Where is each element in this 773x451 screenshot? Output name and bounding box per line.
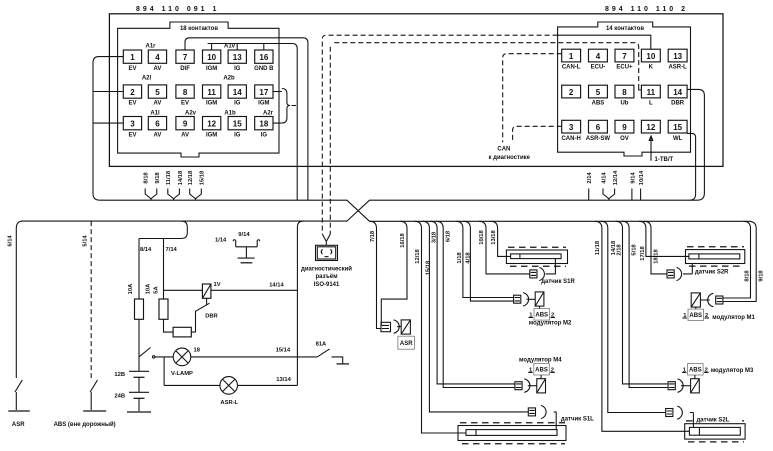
switch DBR <box>196 303 210 332</box>
svg-text:16: 16 <box>259 53 268 62</box>
svg-text:18: 18 <box>259 120 268 129</box>
wire lead 15/18 <box>196 170 206 200</box>
svg-text:EV: EV <box>128 66 136 72</box>
svg-text:3: 3 <box>569 123 574 132</box>
group label A1v <box>224 44 236 50</box>
pin 9/14 (OV) <box>615 120 634 142</box>
switch ABS <box>90 380 97 410</box>
wire L-line dashed from diagnostic connector <box>334 43 638 86</box>
label 9/18 <box>759 270 765 282</box>
wire 3/18 to modulator M4 <box>430 221 515 384</box>
wire lead 9/18 <box>151 172 161 201</box>
pin 7/14 (ECU+) <box>615 49 634 70</box>
label 12В <box>114 372 125 378</box>
svg-text:8: 8 <box>622 88 627 97</box>
svg-text:модулятор M4: модулятор M4 <box>519 358 562 364</box>
wire sensor S2R to plug <box>683 264 692 274</box>
svg-text:A1v: A1v <box>224 44 236 50</box>
group label A2b <box>223 76 235 82</box>
label датчик S1L <box>561 417 594 423</box>
group label A1l <box>150 111 160 117</box>
label 15/14 <box>276 348 291 354</box>
svg-text:ABS (вне дорожный): ABS (вне дорожный) <box>54 421 116 428</box>
wire fork into diagnostic connector <box>322 234 330 245</box>
svg-text:15/18: 15/18 <box>425 260 431 275</box>
connector X2 label: 14 контактов <box>606 26 644 32</box>
svg-text:A1l: A1l <box>150 111 160 117</box>
svg-text:9/14: 9/14 <box>238 232 250 238</box>
svg-text:81A: 81A <box>316 342 327 348</box>
fuse 5A relay feed <box>159 299 168 319</box>
svg-text:IG: IG <box>234 66 241 72</box>
pin 1/18 (EV) <box>123 50 141 72</box>
group label A2v <box>185 111 197 117</box>
svg-text:ABS: ABS <box>689 313 702 319</box>
svg-text:ASR-L: ASR-L <box>668 65 687 71</box>
wire lead 11/18 <box>166 170 173 200</box>
wire 6/18 to modulator M4 <box>436 221 515 387</box>
svg-text:5/14: 5/14 <box>83 235 89 247</box>
svg-text:ABS: ABS <box>535 313 548 319</box>
wire X1 pins 10,13,16 top arc <box>208 44 298 201</box>
plug S1R <box>530 267 545 280</box>
svg-text:8/18: 8/18 <box>745 270 751 282</box>
plug S2L <box>666 406 683 419</box>
svg-text:10A: 10A <box>128 283 134 294</box>
switch 81A and ground <box>317 349 343 364</box>
label модулятор M1 <box>712 315 755 321</box>
wire 6/14 to ASR switch <box>16 221 23 378</box>
ABS box M4 <box>528 364 555 376</box>
svg-text:датчик S1R: датчик S1R <box>541 279 575 285</box>
pin 11/14 (L) <box>641 85 660 107</box>
lamp V-LAMP <box>173 348 191 366</box>
svg-text:4/18: 4/18 <box>466 252 472 264</box>
svg-text:3/18: 3/18 <box>432 231 438 243</box>
pin 15/14 (WL) <box>668 120 687 142</box>
wire 8/18 to modulator M1 <box>723 221 751 298</box>
svg-text:12/14: 12/14 <box>613 170 619 185</box>
svg-text:13: 13 <box>673 52 682 61</box>
pin 2/14 (nc) <box>562 85 581 98</box>
wire 15/18 to sensor S1L plug <box>422 221 528 412</box>
svg-text:12/18: 12/18 <box>415 248 421 263</box>
svg-text:10/18: 10/18 <box>479 229 485 244</box>
wire 10/18 to sensor S1R plug <box>479 221 530 274</box>
svg-text:A2b: A2b <box>223 76 235 82</box>
svg-text:894 110 091 1: 894 110 091 1 <box>136 6 219 13</box>
svg-text:11/18: 11/18 <box>166 170 172 185</box>
svg-text:GND B: GND B <box>254 66 274 72</box>
svg-text:5/18: 5/18 <box>632 244 638 256</box>
svg-text:8/14: 8/14 <box>140 247 152 253</box>
valve ASR assembly <box>381 320 410 334</box>
label датчик S2R <box>695 270 729 276</box>
svg-text:IG: IG <box>234 101 241 107</box>
svg-text:5A: 5A <box>154 285 160 293</box>
connector X1 label: 18 контактов <box>180 26 218 32</box>
svg-text:1/14: 1/14 <box>215 238 227 244</box>
label 6/14 <box>8 235 14 247</box>
svg-text:A1r: A1r <box>145 44 156 50</box>
wire 18/18 to sensor S2R plug <box>644 221 667 274</box>
pin 13/18 (IG) <box>228 50 246 72</box>
ABS box M2 <box>529 309 556 321</box>
svg-text:датчик S2R: датчик S2R <box>695 270 729 276</box>
svg-text:6/14: 6/14 <box>8 235 14 247</box>
svg-text:14 контактов: 14 контактов <box>606 26 644 32</box>
pin 10/18 (IGM) <box>203 50 221 72</box>
svg-text:A1b: A1b <box>224 111 236 117</box>
connector X2 body (14-pin) <box>558 22 691 156</box>
svg-text:13/18: 13/18 <box>491 229 497 244</box>
svg-text:V-LAMP: V-LAMP <box>171 371 193 377</box>
pin 5/18 (AV) <box>148 85 166 107</box>
wire 7/14 relay feed down to resistor <box>164 319 196 332</box>
wire 5/18 to modulator M3 <box>622 221 668 387</box>
label 18 <box>194 348 201 354</box>
label diagnostic connector <box>301 265 352 288</box>
fuse 10A battery feed <box>135 299 144 319</box>
label 2/18 <box>617 244 623 256</box>
svg-text:14/14: 14/14 <box>269 283 284 289</box>
wire sensor S1R to plug <box>546 259 556 274</box>
svg-text:11: 11 <box>207 88 216 97</box>
wire 14/18 to sensor S2L plug <box>601 221 666 412</box>
svg-text:4: 4 <box>155 53 160 62</box>
wire lead 4/14 <box>601 172 609 201</box>
ground bar <box>238 258 255 263</box>
modulator M3 <box>668 375 699 393</box>
svg-text:7: 7 <box>183 53 188 62</box>
sensor S2L toothed ring <box>685 421 745 442</box>
label 10A <box>128 283 134 294</box>
pin 14/14 (DBR) <box>668 85 687 107</box>
svg-text:15: 15 <box>233 120 242 129</box>
wire X2 pin15 WL to harness <box>687 133 696 200</box>
label 14/14 <box>269 283 284 289</box>
svg-text:к диагностике: к диагностике <box>489 155 531 161</box>
svg-text:3: 3 <box>130 120 135 129</box>
sensor S1L toothed ring <box>458 423 566 444</box>
label 8/18 <box>745 270 751 282</box>
pin 13/14 (ASR-L) <box>668 49 687 70</box>
svg-text:24В: 24В <box>114 394 125 400</box>
svg-text:IGM: IGM <box>206 132 217 138</box>
wire 15/14 lamp line <box>155 356 317 358</box>
svg-text:5: 5 <box>596 88 601 97</box>
group label A1r <box>145 44 156 50</box>
svg-text:ECU+: ECU+ <box>616 65 633 71</box>
pin 3/18 (EV) <box>123 117 141 139</box>
arrow into X2 pin12 <box>649 136 653 161</box>
label CAN к диагностике <box>489 147 531 162</box>
svg-text:11/18: 11/18 <box>595 240 601 255</box>
svg-text:9/18: 9/18 <box>155 172 161 184</box>
ABS box M3 <box>682 364 709 376</box>
svg-text:OV: OV <box>620 136 629 142</box>
pin 5/14 (ABS) <box>589 85 608 107</box>
svg-text:15: 15 <box>673 123 682 132</box>
wire lead 14/18 <box>174 170 184 200</box>
lamp ASR-L <box>220 377 238 395</box>
svg-text:CAN: CAN <box>497 147 510 153</box>
svg-text:ABS: ABS <box>535 368 548 374</box>
wire 16/18 to ASR valve <box>381 221 407 325</box>
label модулятор M3 <box>711 368 754 374</box>
svg-text:9/14: 9/14 <box>630 172 636 184</box>
pin 18/18 (IG) <box>255 117 273 139</box>
label ASR-L <box>220 400 238 406</box>
wire K-line dashed to diagnostic connector <box>322 35 557 234</box>
svg-text:1: 1 <box>569 52 574 61</box>
svg-text:17: 17 <box>259 88 268 97</box>
label DBR <box>205 314 218 320</box>
label 17/18 <box>640 245 646 260</box>
wire 13/18 to sensor S1R <box>491 221 511 256</box>
label box ASR <box>398 336 415 349</box>
label 5A <box>154 285 160 293</box>
svg-text:5: 5 <box>155 88 160 97</box>
svg-text:14: 14 <box>673 88 682 97</box>
pin 4/14 (ECU-) <box>589 49 608 70</box>
pin 6/18 (AV) <box>148 117 166 139</box>
label 7/14 <box>166 247 178 253</box>
terminal bar ASR <box>8 410 30 412</box>
svg-text:ABS: ABS <box>689 368 702 374</box>
svg-text:DIF: DIF <box>180 66 190 72</box>
svg-text:7/18: 7/18 <box>370 230 376 242</box>
label 6/18 <box>446 230 452 242</box>
wire lead 9/14 <box>630 172 636 201</box>
svg-text:ASR-SW: ASR-SW <box>586 136 611 142</box>
pin 16/18 (GND B) <box>254 50 274 72</box>
label 24В <box>114 394 125 400</box>
sensor S2R toothed ring <box>686 247 745 266</box>
pin 15/18 (IG) <box>228 117 246 139</box>
svg-text:12: 12 <box>207 120 216 129</box>
ABS box M1 <box>682 309 709 321</box>
svg-text:DBR: DBR <box>205 314 218 320</box>
group label A1b <box>224 111 236 117</box>
svg-text:14: 14 <box>233 88 242 97</box>
pin 11/18 (IGM) <box>203 85 221 107</box>
svg-text:IGM: IGM <box>206 66 217 72</box>
label 10A second <box>146 283 152 294</box>
label датчик S2L <box>695 415 742 424</box>
svg-text:IGM: IGM <box>258 101 269 107</box>
plug S1L <box>528 405 546 418</box>
wire CAN-L dashed branch from X2 pin1 <box>503 54 562 143</box>
switch ASR <box>15 380 22 410</box>
pin 3/14 (CAN-H) <box>561 120 580 142</box>
svg-text:10: 10 <box>207 53 216 62</box>
wire lead 10/14 <box>639 170 645 200</box>
svg-text:1: 1 <box>130 53 135 62</box>
svg-text:диагностический: диагностический <box>301 265 352 272</box>
svg-text:EV: EV <box>128 132 136 138</box>
wire lead 12/14 <box>609 170 619 200</box>
svg-text:DBR: DBR <box>671 101 685 107</box>
svg-text:модулятор M3: модулятор M3 <box>711 368 754 374</box>
svg-text:A2r: A2r <box>263 111 274 117</box>
harness branch to fuses 8/14 7/14 <box>139 221 187 299</box>
svg-text:4: 4 <box>596 52 601 61</box>
svg-text:IG: IG <box>234 132 241 138</box>
group label A2l <box>142 76 152 82</box>
wires 1/14 9/14 to ground <box>233 240 260 258</box>
svg-text:4/14: 4/14 <box>601 172 607 184</box>
battery cell 12V <box>129 371 149 377</box>
svg-text:894 110 110 2: 894 110 110 2 <box>605 6 688 13</box>
wire 11/18 to sensor S2L <box>595 221 690 431</box>
label 7/18 <box>370 230 376 242</box>
svg-text:12/18: 12/18 <box>188 170 194 185</box>
svg-text:12В: 12В <box>114 372 125 378</box>
svg-text:8: 8 <box>183 88 188 97</box>
label 9/14 <box>238 232 250 238</box>
svg-text:1/18: 1/18 <box>457 252 463 264</box>
switch from battery to lamps <box>139 348 155 359</box>
svg-text:ASR: ASR <box>400 341 413 347</box>
wire 17/18 to sensor S2R <box>639 221 689 256</box>
wire CAN-H dashed branch from X2 pin3 <box>513 126 562 141</box>
label 3/18 <box>432 231 438 243</box>
pin 2/18 (EV) <box>123 85 141 107</box>
pin 12/14 (nc) <box>641 120 660 133</box>
label 11/18 <box>595 240 601 255</box>
svg-text:разъём: разъём <box>315 274 338 280</box>
wire right edge of lamp circuit <box>297 221 303 385</box>
label 18/18 <box>654 248 660 263</box>
modulator M4 <box>515 375 546 393</box>
diagnostic connector ISO-9141 <box>316 245 338 260</box>
svg-text:6: 6 <box>596 123 601 132</box>
pin 9/18 (AV) <box>176 117 194 139</box>
svg-text:13/14: 13/14 <box>276 377 291 383</box>
svg-text:IG: IG <box>261 132 268 138</box>
svg-text:9: 9 <box>183 120 188 129</box>
label 16/18 <box>400 232 406 247</box>
svg-text:1V: 1V <box>214 282 221 288</box>
wire battery column <box>138 319 140 411</box>
wire X2 pin14 DBR to harness <box>687 89 704 200</box>
svg-text:2/18: 2/18 <box>617 244 623 256</box>
relay 1V <box>202 284 211 305</box>
label ABS (вне дорожный) <box>54 421 116 428</box>
svg-text:модулятор M1: модулятор M1 <box>712 315 755 321</box>
connector X1 body (18-pin) <box>118 22 279 157</box>
svg-text:ECU-: ECU- <box>591 65 606 71</box>
svg-text:13: 13 <box>233 53 242 62</box>
svg-text:ASR-L: ASR-L <box>220 400 238 406</box>
svg-text:15/18: 15/18 <box>200 170 206 185</box>
group label A2r <box>263 111 274 117</box>
svg-text:AV: AV <box>154 101 162 107</box>
pin 7/18 (DIF) <box>176 50 194 72</box>
resistor box <box>173 327 191 337</box>
label 81A <box>316 342 327 348</box>
svg-text:12: 12 <box>646 123 655 132</box>
svg-text:датчик S2L: датчик S2L <box>697 418 730 424</box>
label 14/18 <box>611 240 617 255</box>
bracket X1 pins 17,18 <box>273 89 296 124</box>
svg-text:WL: WL <box>673 136 683 142</box>
svg-text:модулятор M2: модулятор M2 <box>529 321 572 327</box>
svg-text:EV: EV <box>181 101 189 107</box>
svg-text:2: 2 <box>130 88 135 97</box>
svg-text:8/18: 8/18 <box>144 172 150 184</box>
harness line Q (left y221 to right y200) with crossover <box>23 200 697 221</box>
svg-text:A2v: A2v <box>185 111 197 117</box>
pin 10/14 (K) <box>641 49 660 70</box>
svg-text:18/18: 18/18 <box>654 248 660 263</box>
label 1/18 <box>457 252 463 264</box>
svg-text:2: 2 <box>569 88 574 97</box>
wire 7/18 to ASR valve <box>370 221 382 328</box>
wire L-line dashed down to diag <box>329 47 331 234</box>
svg-text:ASR: ASR <box>12 422 25 428</box>
label 5/14 <box>83 235 89 247</box>
plug S2R <box>667 267 682 280</box>
svg-text:7: 7 <box>622 52 627 61</box>
svg-text:7/14: 7/14 <box>166 247 178 253</box>
pin 8/18 (EV) <box>176 85 194 107</box>
svg-text:EV: EV <box>128 101 136 107</box>
label 13/18 <box>491 229 497 244</box>
title part number left connector <box>136 6 219 13</box>
label модулятор M2 <box>529 321 572 327</box>
svg-text:11: 11 <box>647 88 656 97</box>
svg-text:10: 10 <box>646 52 655 61</box>
svg-text:9: 9 <box>622 123 627 132</box>
harness line P (left y200 to right y221) with crossover <box>100 200 750 221</box>
svg-text:17/18: 17/18 <box>640 245 646 260</box>
label модулятор M4 <box>519 358 562 364</box>
label 10/18 <box>479 229 485 244</box>
label 1V <box>214 282 221 288</box>
terminal bar 81A <box>337 363 350 365</box>
wire L-line hook to X2 pin11 <box>639 86 642 90</box>
wire 4/18 to modulator M2 <box>463 221 513 301</box>
svg-text:2/14: 2/14 <box>587 172 593 184</box>
label 4/18 <box>466 252 472 264</box>
svg-text:9/18: 9/18 <box>759 270 765 282</box>
svg-text:15/14: 15/14 <box>276 348 291 354</box>
pin 8/14 (Ub) <box>615 85 634 107</box>
svg-text:CAN-H: CAN-H <box>561 136 580 142</box>
wire lead 2/14 <box>587 172 593 201</box>
wire X1 pins 1,2,3 left bus <box>93 57 123 201</box>
svg-text:6/18: 6/18 <box>446 230 452 242</box>
svg-text:AV: AV <box>154 66 162 72</box>
wire 13/14 lamp line <box>164 384 297 386</box>
svg-text:L: L <box>649 101 653 107</box>
wire 2/18 to modulator M3 <box>616 221 669 384</box>
wire 5/14 dashed to ABS switch <box>90 221 92 378</box>
title part number right connector <box>605 6 688 13</box>
label 12/18 <box>415 248 421 263</box>
wire lead 12/18 <box>188 170 195 200</box>
pin 12/18 (IGM) <box>203 117 221 139</box>
wire 9/18 to modulator M1 <box>723 221 756 301</box>
svg-text:18 контактов: 18 контактов <box>180 26 218 32</box>
pin 1/14 (CAN-L) <box>562 49 581 70</box>
label 13/14 <box>276 377 291 383</box>
battery ground bar <box>127 411 151 413</box>
svg-text:1-ТВ/Т: 1-ТВ/Т <box>655 157 674 163</box>
ECU outer frame <box>109 14 723 167</box>
